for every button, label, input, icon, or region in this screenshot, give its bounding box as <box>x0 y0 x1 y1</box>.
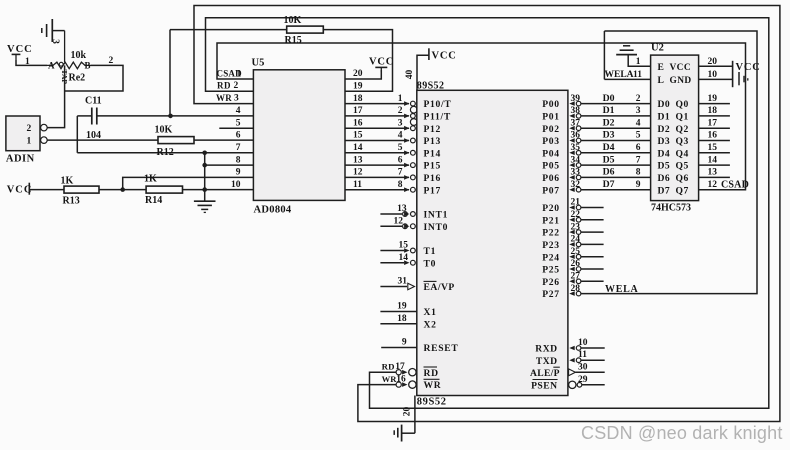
89S52 pin 18 X2 stub <box>380 314 436 330</box>
svg-text:8: 8 <box>636 168 641 178</box>
pin 3 label of Re2 <box>50 39 60 44</box>
resistor R13 1K <box>61 176 100 207</box>
wire 89S52 P06 to 74HC573 D6 <box>569 175 650 180</box>
svg-text:14: 14 <box>353 143 363 153</box>
svg-text:WR: WR <box>216 93 232 103</box>
svg-text:R12: R12 <box>157 147 174 158</box>
svg-text:P20: P20 <box>542 203 560 214</box>
svg-text:P11/T: P11/T <box>424 112 452 123</box>
svg-text:C11: C11 <box>85 96 102 107</box>
svg-text:15: 15 <box>399 241 409 251</box>
wire RD net: AD0804 pin2 up and across top <box>206 18 769 409</box>
svg-text:VCC: VCC <box>736 62 761 73</box>
svg-text:1: 1 <box>398 94 403 104</box>
svg-text:16: 16 <box>353 118 363 128</box>
svg-text:WR: WR <box>382 374 398 384</box>
net label D5 <box>603 154 615 165</box>
resistor R12 10K <box>155 125 195 159</box>
svg-text:14: 14 <box>708 155 718 165</box>
svg-text:P24: P24 <box>542 252 560 263</box>
svg-text:5: 5 <box>236 118 241 128</box>
net label WELA at P27 <box>605 284 638 295</box>
svg-text:29: 29 <box>578 375 588 385</box>
svg-text:16: 16 <box>708 131 718 141</box>
svg-text:P06: P06 <box>542 173 560 184</box>
svg-text:6: 6 <box>236 131 241 141</box>
89S52 pin 29 PSEN stub <box>569 375 605 389</box>
89S52 pin 11 TXD stub <box>569 350 604 362</box>
svg-text:2: 2 <box>27 124 32 134</box>
74HC573 pin 12 Q7 wire (CSAD net) <box>708 180 718 190</box>
svg-text:Q7: Q7 <box>676 185 689 196</box>
svg-text:2: 2 <box>234 81 239 91</box>
74HC573 pin 14 Q5 stub <box>699 155 730 165</box>
pin 1 label of Re2 <box>25 57 30 67</box>
svg-text:D4: D4 <box>658 148 671 159</box>
pin number 1 (89S52 left) <box>398 94 403 104</box>
svg-text:D3: D3 <box>658 136 671 147</box>
junction R13/R14/pin9 <box>120 187 125 192</box>
ground (89S52 pin 20) <box>394 425 401 442</box>
89S52 pin 19 X1 stub <box>380 302 436 318</box>
svg-text:4: 4 <box>398 131 403 141</box>
svg-text:6: 6 <box>636 143 641 153</box>
89S52 pin 10 RXD stub <box>569 338 604 350</box>
junction C11/R15 <box>168 114 173 119</box>
89S52 pin 9 RESET stub <box>381 338 458 354</box>
svg-text:T0: T0 <box>424 258 437 269</box>
74HC573 pin 17 Q2 stub <box>699 118 730 128</box>
wire R15 left down to C11 junction <box>169 30 171 116</box>
pin number 35 (89S52 right) <box>571 143 581 153</box>
svg-text:1K: 1K <box>61 176 74 187</box>
pin number 5 (89S52 left) <box>398 143 403 153</box>
ADC U5 AD0804 <box>252 58 346 216</box>
wire AD0804 pin 8 to ground vertical <box>205 164 254 166</box>
svg-text:CSAD: CSAD <box>721 179 749 190</box>
svg-text:40: 40 <box>405 70 415 80</box>
svg-text:19: 19 <box>708 94 718 104</box>
wire 89S52 P05 to 74HC573 D5 <box>569 163 650 168</box>
svg-text:1: 1 <box>27 137 32 147</box>
net label RD at AD0804 pin 2 <box>217 81 239 92</box>
pin marker 89S52 pin 5 <box>404 150 415 155</box>
svg-text:D6: D6 <box>603 167 615 178</box>
svg-text:P16: P16 <box>424 173 442 184</box>
svg-text:74HC573: 74HC573 <box>651 203 691 214</box>
net label D2 <box>603 117 615 128</box>
74HC573 pin 15 Q4 stub <box>699 143 730 153</box>
wire 89S52 pin 40 to VCC <box>417 55 429 90</box>
svg-text:P05: P05 <box>542 161 560 172</box>
svg-text:P04: P04 <box>542 148 560 159</box>
VCC symbol (AD0804 pin 20) <box>369 57 394 73</box>
74HC573 internal labels <box>658 62 692 196</box>
svg-text:10: 10 <box>708 70 718 80</box>
svg-text:30: 30 <box>578 362 588 372</box>
ground (U2 right, sideways) <box>739 72 748 85</box>
89S52 pin 26 P25 stub <box>569 259 603 271</box>
svg-text:4: 4 <box>236 106 241 116</box>
89S52 pin 12 INT0 stub <box>380 216 448 232</box>
pin number 16 (AD0804 right) <box>353 118 363 128</box>
wire CSAD net: AD0804 pin1 up and across top <box>217 43 746 190</box>
pin number 34 (89S52 right) <box>571 155 581 165</box>
svg-text:10: 10 <box>231 180 241 190</box>
89S52 pin 27 P26 stub <box>569 272 603 284</box>
pin number 40 (rotated) <box>405 70 415 80</box>
svg-text:3: 3 <box>398 118 403 128</box>
svg-text:3: 3 <box>234 94 239 104</box>
svg-text:12: 12 <box>353 168 363 178</box>
89S52 pin 30 ALE stub <box>569 362 605 375</box>
svg-text:D3: D3 <box>603 130 615 141</box>
svg-text:8: 8 <box>398 180 403 190</box>
svg-text:P14: P14 <box>424 148 442 159</box>
svg-text:1: 1 <box>636 57 641 67</box>
svg-text:RESET: RESET <box>424 343 459 354</box>
wire 89S52 P00 to 74HC573 D0 <box>569 101 650 106</box>
svg-text:P21: P21 <box>542 215 560 226</box>
wire junction up to AD0804 pin 9 <box>123 177 254 189</box>
svg-text:P23: P23 <box>542 240 560 251</box>
net label D6 <box>603 167 615 178</box>
VCC symbol (at R13) <box>7 183 33 196</box>
VCC symbol (top-left) <box>7 44 33 60</box>
pin marker 89S52 pin 1 <box>404 101 415 106</box>
wire 89S52 P02 to 74HC573 D2 <box>569 126 650 131</box>
svg-text:3: 3 <box>636 106 641 116</box>
89S52 pin 25 P24 stub <box>569 247 603 259</box>
wire U2 pin 10 to ground <box>699 70 733 80</box>
89S52 pin 17 RD markers and label <box>382 362 439 379</box>
svg-text:R13: R13 <box>63 196 80 207</box>
svg-text:11: 11 <box>578 350 587 360</box>
wire R12 to AD0804 pin 6 <box>194 139 253 141</box>
AD0804 pin 5 stub <box>219 127 253 129</box>
junction pin7/ground vertical <box>202 151 207 156</box>
svg-text:26: 26 <box>571 259 581 269</box>
svg-text:INT1: INT1 <box>424 210 449 221</box>
svg-text:P27: P27 <box>542 289 560 300</box>
svg-text:7: 7 <box>398 168 403 178</box>
pin number 17 (AD0804 right) <box>353 106 363 116</box>
pin number 8 (74HC573 left) <box>636 168 641 178</box>
potentiometer Re2 10k <box>47 50 91 84</box>
net label WELA11 at U2 pin 11 <box>605 70 643 80</box>
svg-text:R15: R15 <box>285 35 302 46</box>
ground (above U2) <box>616 46 637 55</box>
svg-text:20: 20 <box>708 57 718 67</box>
svg-text:RXD: RXD <box>535 344 557 355</box>
net label D0 <box>603 93 615 104</box>
wire AD0804 pin 7 row <box>77 152 253 154</box>
svg-text:AD0804: AD0804 <box>254 205 292 216</box>
svg-text:ALE/P: ALE/P <box>530 368 560 379</box>
svg-text:D1: D1 <box>658 112 671 123</box>
svg-text:X1: X1 <box>424 307 437 318</box>
MCU 89S52 <box>417 80 568 407</box>
svg-text:13: 13 <box>708 168 718 178</box>
svg-text:Q3: Q3 <box>676 136 689 147</box>
svg-text:VCC: VCC <box>7 44 33 55</box>
svg-text:35: 35 <box>571 143 581 153</box>
svg-text:P01: P01 <box>542 112 560 123</box>
svg-text:38: 38 <box>571 106 581 116</box>
svg-text:PSEN: PSEN <box>531 380 558 391</box>
wire ADIN pin1 / R12 row <box>47 139 158 141</box>
pin number 11 (AD0804 right) <box>353 180 362 190</box>
svg-text:10: 10 <box>578 338 588 348</box>
svg-text:U5: U5 <box>252 58 265 69</box>
pin number 3 (74HC573 left) <box>636 106 641 116</box>
capacitor C11 <box>85 96 102 142</box>
svg-text:20: 20 <box>403 407 413 417</box>
89S52 pin 13 INT1 stub <box>380 204 448 220</box>
89S52 internal labels RXD TXD ALE/P PSEN <box>530 344 560 392</box>
svg-text:D4: D4 <box>603 142 615 153</box>
wire AD0804 pin 20 to VCC <box>345 70 381 79</box>
svg-text:D5: D5 <box>603 154 615 165</box>
pin number 38 (89S52 right) <box>571 106 581 116</box>
wire AD0804 pin 16 to 89S52 pin 3 <box>345 127 409 129</box>
svg-text:7: 7 <box>636 155 641 165</box>
svg-text:D2: D2 <box>658 124 671 135</box>
svg-text:9: 9 <box>636 180 641 190</box>
svg-text:89S52: 89S52 <box>417 397 447 408</box>
wire AD0804 pin 14 to 89S52 pin 5 <box>345 152 409 154</box>
wire U2 pin 20 to VCC <box>699 57 733 67</box>
svg-text:22: 22 <box>571 210 581 220</box>
svg-text:31: 31 <box>398 277 408 287</box>
svg-text:19: 19 <box>397 302 407 312</box>
svg-text:B: B <box>85 61 91 71</box>
svg-text:Q1: Q1 <box>676 112 689 123</box>
pin number 6 (74HC573 left) <box>636 143 641 153</box>
wire WR net: AD0804 pin3 up and across top <box>194 6 780 422</box>
resistor R15 10K <box>170 15 323 46</box>
wire Re2 wiper to ground <box>64 31 66 62</box>
svg-text:27: 27 <box>571 272 581 282</box>
wire C11 right to AD0804 pin 4 <box>97 115 254 117</box>
svg-text:TXD: TXD <box>536 356 558 367</box>
wire AD0804 pin 13 to 89S52 pin 6 <box>345 164 409 166</box>
VCC symbol (U2 right) <box>733 61 761 87</box>
svg-text:12: 12 <box>394 216 404 226</box>
svg-text:RD: RD <box>424 368 439 379</box>
pin number 2 (74HC573 left) <box>636 94 641 104</box>
watermark <box>581 423 783 443</box>
svg-text:5: 5 <box>398 143 403 153</box>
net label D7 <box>603 179 615 190</box>
svg-text:D6: D6 <box>658 173 671 184</box>
svg-text:Q6: Q6 <box>676 173 689 184</box>
wire ground to U2 pin 1 <box>628 55 650 67</box>
AD0804 left pin numbers 4-10 <box>231 106 241 190</box>
svg-text:T1: T1 <box>424 246 437 257</box>
svg-text:17: 17 <box>708 118 718 128</box>
pin marker 89S52 pin 6 <box>404 163 415 168</box>
pin number 33 (89S52 right) <box>571 168 581 178</box>
pin number 14 (AD0804 right) <box>353 143 363 153</box>
svg-text:1K: 1K <box>144 174 157 185</box>
89S52 pin 16 WR markers and label <box>382 374 442 391</box>
svg-text:15: 15 <box>353 131 363 141</box>
pin number 39 (89S52 right) <box>571 94 581 104</box>
svg-text:P26: P26 <box>542 277 560 288</box>
wire 89S52 P03 to 74HC573 D3 <box>569 138 650 143</box>
svg-text:7: 7 <box>236 143 241 153</box>
svg-text:2: 2 <box>636 94 641 104</box>
pin number 13 (AD0804 right) <box>353 155 363 165</box>
svg-text:P13: P13 <box>424 136 442 147</box>
extra circles on 89S52 pins 1 2 <box>410 106 417 125</box>
svg-text:P25: P25 <box>542 265 560 276</box>
pin number 36 (89S52 right) <box>571 131 581 141</box>
74HC573 pin 19 Q0 stub <box>699 94 730 104</box>
svg-text:13: 13 <box>353 155 363 165</box>
svg-text:15: 15 <box>708 143 718 153</box>
svg-text:28: 28 <box>571 284 581 294</box>
ground (below AD0804) <box>194 201 216 212</box>
svg-text:5: 5 <box>636 131 641 141</box>
svg-text:EA/VP: EA/VP <box>424 282 455 293</box>
svg-text:CSDN @neo dark knight: CSDN @neo dark knight <box>581 423 783 443</box>
svg-text:23: 23 <box>571 222 581 232</box>
wire R15 right down to AD0804 pin 19 <box>323 30 392 92</box>
svg-text:D7: D7 <box>658 185 671 196</box>
AD0804 right pin numbers 20 19 <box>353 69 363 91</box>
svg-text:INT0: INT0 <box>424 222 449 233</box>
wire VCC to Re2 pin A <box>16 60 47 65</box>
ground vertical for pins 7 8 10 <box>204 153 206 201</box>
pin number 12 (AD0804 right) <box>353 168 363 178</box>
89S52 pin 21 P20 stub <box>569 198 603 210</box>
net label D3 <box>603 130 615 141</box>
svg-text:A: A <box>48 61 55 71</box>
svg-text:12: 12 <box>708 180 718 190</box>
resistor R14 1K <box>144 174 183 207</box>
svg-text:Q0: Q0 <box>676 99 689 110</box>
wire AD0804 pin 12 to 89S52 pin 7 <box>345 176 409 178</box>
svg-text:D2: D2 <box>603 117 615 128</box>
wire VCC to R13 <box>29 189 64 191</box>
pin number 2 (89S52 left) <box>398 106 403 116</box>
pin number 4 (74HC573 left) <box>636 118 641 128</box>
pin number 8 (89S52 left) <box>398 180 403 190</box>
svg-text:VCC: VCC <box>432 51 457 62</box>
svg-text:18: 18 <box>708 106 718 116</box>
junction pin8/ground vertical <box>202 163 207 168</box>
pin number 5 (74HC573 left) <box>636 131 641 141</box>
svg-text:36: 36 <box>571 131 581 141</box>
svg-text:Q4: Q4 <box>676 148 689 159</box>
wire R13 to R14 <box>99 189 146 191</box>
74HC573 pin 16 Q3 stub <box>699 131 730 141</box>
svg-text:18: 18 <box>353 94 363 104</box>
svg-text:D5: D5 <box>658 161 671 172</box>
89S52 internal labels right column P20-P27 <box>542 203 560 300</box>
svg-text:VCC: VCC <box>7 185 33 196</box>
svg-text:VCC: VCC <box>670 63 692 73</box>
svg-text:8: 8 <box>236 155 241 165</box>
pin number 15 (AD0804 right) <box>353 131 363 141</box>
svg-text:34: 34 <box>571 155 581 165</box>
svg-text:14: 14 <box>399 253 409 263</box>
svg-text:11: 11 <box>633 70 642 80</box>
net label WR at AD0804 pin 3 <box>216 93 239 104</box>
svg-text:P12: P12 <box>424 124 442 135</box>
svg-text:21: 21 <box>571 198 581 208</box>
wire AD0804 pin 18 to 89S52 pin 1 <box>345 103 409 105</box>
svg-text:VCC: VCC <box>369 57 394 68</box>
pin number 32 (89S52 right) <box>571 180 581 190</box>
wire AD0804 pin 17 to 89S52 pin 2 <box>345 115 409 117</box>
svg-text:P07: P07 <box>542 185 560 196</box>
pin marker 89S52 pin 8 <box>404 187 415 192</box>
74HC573 pin 13 Q6 stub <box>699 168 730 178</box>
svg-text:2: 2 <box>398 106 403 116</box>
pin marker 89S52 pin 2 <box>404 114 415 119</box>
svg-text:10K: 10K <box>284 15 302 26</box>
svg-text:D0: D0 <box>603 93 615 104</box>
svg-text:9: 9 <box>402 338 407 348</box>
wire 89S52 P07 to 74HC573 D7 <box>569 187 650 192</box>
svg-text:9: 9 <box>236 168 241 178</box>
pin number 3 (89S52 left) <box>398 118 403 128</box>
svg-text:WELA: WELA <box>605 70 634 80</box>
svg-text:L: L <box>658 75 665 86</box>
wire C11 left to pin7 row <box>77 116 92 153</box>
pin number 4 (89S52 left) <box>398 131 403 141</box>
wire R14 to AD0804 pin 10 <box>183 189 254 191</box>
pin number 6 (89S52 left) <box>398 155 403 165</box>
net label D4 <box>603 142 615 153</box>
wire Re2 pin B loop down to ADIN pin 2 <box>47 65 123 127</box>
svg-text:20: 20 <box>353 69 363 79</box>
svg-text:RD: RD <box>217 81 231 91</box>
svg-text:P00: P00 <box>542 99 560 110</box>
svg-text:U2: U2 <box>651 43 664 54</box>
89S52 pin 20 GND stub (rotated label) <box>402 396 415 434</box>
svg-text:24: 24 <box>571 235 581 245</box>
net label CSAD at U2 pin 12 <box>721 179 749 190</box>
svg-text:11: 11 <box>353 180 362 190</box>
svg-text:3: 3 <box>50 39 60 44</box>
svg-text:P15: P15 <box>424 161 442 172</box>
junction R14/ground vertical <box>202 187 207 192</box>
svg-text:D0: D0 <box>658 99 671 110</box>
wire AD0804 pin 15 to 89S52 pin 4 <box>345 140 409 142</box>
svg-text:P22: P22 <box>542 228 560 239</box>
svg-text:WELA: WELA <box>605 284 638 295</box>
pin marker 89S52 pin 4 <box>404 138 415 143</box>
net label D1 <box>603 105 615 116</box>
wire AD0804 pin 11 to 89S52 pin 8 <box>345 189 409 191</box>
pin number 37 (89S52 right) <box>571 118 581 128</box>
svg-text:104: 104 <box>86 130 101 141</box>
svg-text:18: 18 <box>397 314 407 324</box>
svg-text:2: 2 <box>109 56 114 66</box>
pin number 9 (74HC573 left) <box>636 180 641 190</box>
svg-text:39: 39 <box>571 94 581 104</box>
pin 2 label of Re2 <box>109 56 114 66</box>
svg-text:GND: GND <box>670 76 692 86</box>
latch U2 74HC573 <box>651 43 699 214</box>
pin number 18 (AD0804 right) <box>353 94 363 104</box>
ground (top-left, sideways) <box>42 19 65 42</box>
89S52 pin 31 EA/VP stub <box>380 277 454 293</box>
